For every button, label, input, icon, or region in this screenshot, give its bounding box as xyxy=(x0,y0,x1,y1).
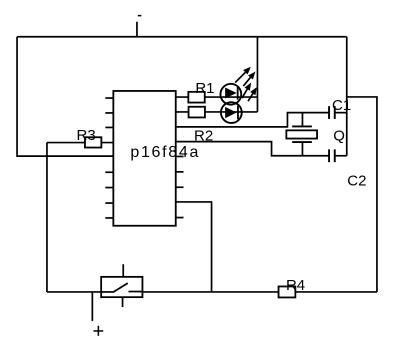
IC right pin ticks xyxy=(176,156,184,217)
wire OSC2 net from IC to C2 xyxy=(176,142,329,156)
wire crystal bottom lead xyxy=(301,142,303,156)
IC U1 p16f84a body xyxy=(113,91,175,226)
resistor R4 xyxy=(279,286,296,297)
wire IC to R2 and LED D2 xyxy=(176,111,258,113)
svg-text:Q: Q xyxy=(333,127,345,144)
wire OSC1 net from IC to C1 xyxy=(176,113,329,127)
LED D1 light arrows xyxy=(235,67,255,86)
positive supply terminal xyxy=(92,292,103,336)
switch S1 xyxy=(101,264,142,307)
LED D2 light arrows xyxy=(242,82,257,101)
wire bottom rail xyxy=(47,291,377,293)
wire R3 branch vertical to bottom rail xyxy=(46,143,48,292)
resistor R1 xyxy=(188,92,204,103)
svg-text:R1: R1 xyxy=(195,80,214,97)
IC left pin ticks xyxy=(105,98,113,218)
svg-text:C1: C1 xyxy=(332,97,351,114)
wire left rail to IC pin xyxy=(17,37,113,156)
wire branch to right rail xyxy=(347,97,377,292)
svg-text:R4: R4 xyxy=(286,277,305,294)
resistor R3 xyxy=(85,137,101,147)
wire IC bottom pin to down rail xyxy=(176,202,212,292)
wire top supply rail xyxy=(17,36,347,38)
resistor R2 xyxy=(189,107,205,118)
capacitor C1 xyxy=(329,106,335,119)
wire R3 to IC xyxy=(47,142,113,144)
wire LED cathode rail vertical xyxy=(256,37,258,112)
wire crystal top lead xyxy=(301,113,303,127)
LED D2 xyxy=(221,102,242,123)
svg-text:R3: R3 xyxy=(77,127,96,144)
wire right vertical C1-C2 rail xyxy=(346,37,348,156)
svg-text:p16f84a: p16f84a xyxy=(130,144,200,161)
svg-text:C2: C2 xyxy=(347,173,366,190)
capacitor C2 xyxy=(329,149,335,162)
wire C2 to right vertical xyxy=(335,155,347,157)
LED D1 xyxy=(220,84,241,105)
wire IC to R1 and LED D1 xyxy=(176,96,258,98)
negative supply terminal xyxy=(137,16,141,37)
crystal Q xyxy=(286,126,317,142)
wire C1 to right vertical xyxy=(335,112,347,114)
